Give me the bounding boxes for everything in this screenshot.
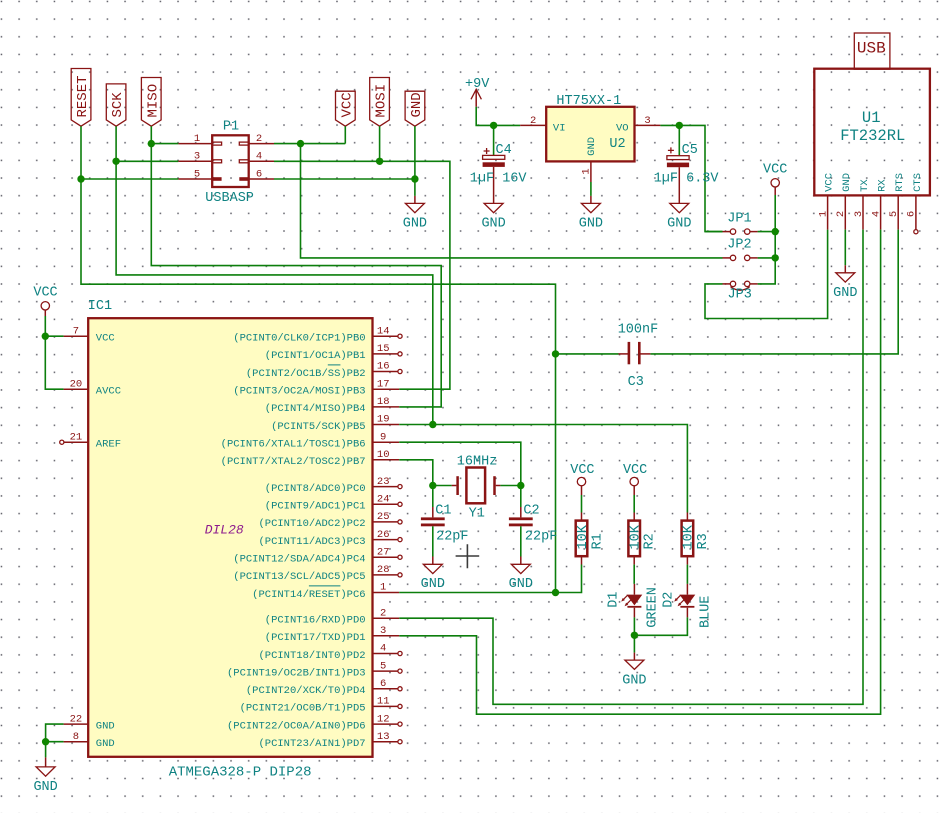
jumper JP1 (723, 212, 758, 235)
capacitor C4 (470, 125, 528, 203)
IC1 pin 25 PC2 (258, 511, 402, 530)
svg-text:(PCINT6/XTAL1/TOSC1)PB6: (PCINT6/XTAL1/TOSC1)PB6 (221, 439, 366, 451)
svg-text:HT75XX-1: HT75XX-1 (556, 94, 621, 109)
wire MISO net: flag down, across, down to PB4 row (151, 126, 441, 407)
power flag GND (under P1 pin6 net) (403, 196, 427, 232)
svg-text:26: 26 (377, 529, 390, 541)
ground symbol for U1 pin2 (833, 265, 857, 301)
svg-text:(PCINT2/OC1B/SS)PB2: (PCINT2/OC1B/SS)PB2 (246, 368, 366, 380)
svg-text:(PCINT13/SCL/ADC5)PC5: (PCINT13/SCL/ADC5)PC5 (233, 571, 365, 583)
power flag +9V (465, 77, 490, 107)
svg-text:TX: TX (859, 179, 871, 192)
svg-text:(PCINT20/XCK/T0)PD4: (PCINT20/XCK/T0)PD4 (246, 685, 366, 697)
wire VCC to IC1 VCC/AVCC pins (45, 316, 63, 389)
wire JP3 left to U1 pin1 (USB power) (705, 230, 828, 319)
svg-text:GND: GND (481, 216, 505, 231)
svg-text:(PCINT21/OC0B/T1)PD5: (PCINT21/OC0B/T1)PD5 (240, 703, 366, 715)
wire D2 cathode to LED ground node (634, 617, 687, 635)
wire U1 pin3 TX to ATmega PD0 (399, 230, 863, 705)
IC1 pin 17 PB3 (233, 378, 399, 397)
resistor R2 10K (628, 495, 657, 565)
wire SCK to P1 pin3 (116, 160, 178, 162)
wire U2 VO to C5 and down right column (660, 125, 722, 231)
resistor R3 10K (682, 513, 711, 565)
pin 6 stub (249, 178, 274, 180)
wire MOSI flag drop (379, 126, 381, 161)
IC1 pin 15 PB1 (265, 343, 402, 362)
IC1 pin 2 PD0 (265, 607, 399, 626)
overline SS on PB2 name (328, 364, 341, 366)
svg-text:IC1: IC1 (88, 299, 112, 314)
wire RESET to P1 pin5 (81, 178, 178, 180)
svg-text:USB: USB (857, 40, 886, 58)
junction JP1/VCC (772, 228, 779, 235)
svg-text:GND: GND (96, 720, 115, 732)
svg-text:C3: C3 (628, 375, 644, 390)
capacitor C2 22pF (509, 486, 557, 557)
junction C5 (676, 122, 683, 129)
svg-text:4: 4 (256, 151, 262, 163)
svg-text:4: 4 (380, 643, 386, 655)
svg-text:JP1: JP1 (727, 212, 751, 227)
svg-text:11: 11 (377, 696, 390, 708)
svg-text:Y1: Y1 (469, 507, 485, 522)
svg-text:(PCINT1/OC1A)PB1: (PCINT1/OC1A)PB1 (265, 350, 366, 362)
IC1 pin 27 PC4 (233, 546, 402, 565)
IC1 pin 23 PC0 (265, 476, 402, 495)
hierarchical label SCK (106, 84, 126, 126)
svg-text:19: 19 (377, 414, 390, 426)
svg-text:JP2: JP2 (727, 238, 751, 253)
svg-text:GND: GND (841, 173, 853, 192)
svg-text:GND: GND (509, 577, 533, 592)
IC1 pin 10 PB7 (221, 449, 400, 468)
svg-text:(PCINT9/ADC1)PC1: (PCINT9/ADC1)PC1 (265, 501, 366, 513)
svg-text:GND: GND (667, 216, 691, 231)
wire JP1 right to VCC column (758, 231, 776, 233)
svg-text:5: 5 (888, 211, 900, 217)
svg-text:6: 6 (380, 678, 386, 690)
svg-text:20: 20 (70, 378, 83, 390)
svg-text:2: 2 (835, 211, 847, 217)
pin 4 RX (880, 196, 882, 230)
wire U1 pin4 RX to ATmega PD1 (399, 230, 880, 715)
IC1 pin 14 PB0 (233, 325, 402, 344)
LED D1 GREEN (607, 584, 661, 628)
svg-text:6: 6 (256, 168, 262, 180)
hierarchical label RESET (71, 69, 91, 127)
connector P1 USBASP (178, 120, 274, 206)
svg-text:U1: U1 (862, 109, 881, 127)
IC1 pin 18 PB4 (265, 396, 399, 415)
capacitor C5 (654, 125, 720, 203)
svg-text:BLUE: BLUE (699, 596, 714, 628)
pin 3 TX (862, 196, 864, 230)
wire VCC flag to P1 pin2 row (344, 126, 346, 143)
svg-text:4: 4 (870, 211, 882, 217)
IC1 pin 28 PC5 (233, 564, 402, 583)
IC1 pin 16 PB2 (246, 361, 402, 380)
svg-text:D2: D2 (662, 592, 677, 608)
svg-text:1: 1 (194, 133, 200, 145)
ground symbol for C1 (421, 557, 445, 592)
junction VCC pin7 (42, 333, 49, 340)
svg-text:(PCINT10/ADC2)PC2: (PCINT10/ADC2)PC2 (258, 518, 365, 530)
svg-text:MISO: MISO (145, 84, 161, 118)
svg-text:(PCINT7/XTAL2/TOSC2)PB7: (PCINT7/XTAL2/TOSC2)PB7 (221, 456, 366, 468)
ground symbol for C5 (667, 203, 691, 231)
svg-text:(PCINT14/RESET)PC6: (PCINT14/RESET)PC6 (252, 589, 365, 601)
svg-text:(PCINT18/INT0)PD2: (PCINT18/INT0)PD2 (258, 650, 365, 662)
wire U1 pin2 to ground (844, 230, 846, 266)
USB port box (854, 33, 890, 69)
svg-text:GND: GND (421, 577, 445, 592)
junction JP2/VCC (772, 254, 779, 261)
svg-text:P1: P1 (223, 120, 239, 135)
svg-text:1: 1 (380, 582, 386, 594)
ground symbol for C4 (481, 203, 505, 231)
svg-text:3: 3 (853, 211, 865, 217)
svg-text:6: 6 (906, 211, 918, 217)
wire MISO to P1 pin1 (151, 143, 178, 145)
pin 5 RTS (897, 196, 899, 230)
svg-text:VCC: VCC (33, 285, 57, 300)
svg-text:VI: VI (553, 123, 566, 135)
IC1 pin 1 PC6 (252, 582, 399, 601)
IC U1 FT232RL (814, 33, 930, 234)
ground symbol for C2 (509, 557, 533, 592)
svg-text:(PCINT5/SCK)PB5: (PCINT5/SCK)PB5 (271, 421, 366, 433)
wire IC1 GND pins to ground (46, 724, 64, 757)
svg-text:GND: GND (96, 738, 115, 750)
ground symbol for LEDs (622, 653, 646, 689)
svg-text:10K: 10K (576, 524, 591, 549)
svg-text:R2: R2 (643, 533, 658, 549)
wire PB7 XTAL2 to crystal left (399, 460, 433, 486)
svg-text:VO: VO (616, 123, 629, 135)
svg-text:(PCINT8/ADC0)PC0: (PCINT8/ADC0)PC0 (265, 483, 366, 495)
svg-text:VCC: VCC (339, 92, 355, 117)
svg-text:(PCINT16/RXD)PD0: (PCINT16/RXD)PD0 (265, 615, 366, 627)
IC1 pin 19 PB5 (271, 414, 399, 433)
LED D2 BLUE (662, 584, 714, 628)
svg-text:RX: RX (877, 179, 889, 192)
svg-text:GND: GND (409, 92, 425, 117)
svg-text:VCC: VCC (763, 163, 787, 178)
svg-text:U2: U2 (609, 137, 625, 152)
junction GND pin8 (42, 738, 49, 745)
hierarchical label MISO (141, 78, 161, 127)
svg-text:15: 15 (377, 343, 390, 355)
power flag VCC (R1) (570, 463, 594, 495)
svg-text:5: 5 (380, 660, 386, 672)
junction P1 pin1/MISO (148, 140, 155, 147)
wire +9V to U2 VI (476, 107, 520, 126)
IC1 pin 3 PD1 (265, 625, 399, 644)
svg-text:1µF 16V: 1µF 16V (470, 171, 528, 186)
junction crystal left (429, 482, 436, 489)
svg-text:28: 28 (377, 564, 390, 576)
svg-text:7: 7 (73, 325, 79, 337)
wire JP2 right to VCC column (758, 257, 776, 259)
pin 8 GND (64, 741, 89, 743)
svg-text:25: 25 (377, 511, 390, 523)
wire P1 pin4 row across and down to PB3 (274, 161, 450, 389)
junction PC6/R1 (552, 589, 559, 596)
wire PC6 row to R1/C3 junction (399, 565, 581, 593)
capacitor C1 22pF (421, 486, 469, 557)
ground symbol bottom-left (33, 757, 57, 794)
junction MOSI flag (376, 158, 383, 165)
pin 20 AVCC (64, 388, 89, 390)
wire R3 to LED D2 (686, 565, 688, 584)
wire PB6 XTAL1 to crystal right (399, 442, 521, 485)
IC1 pin 4 PD2 (258, 643, 402, 662)
wire crystal right lead (500, 485, 520, 487)
svg-text:GND: GND (33, 780, 57, 795)
svg-text:R3: R3 (696, 533, 711, 549)
jumper JP3 (723, 281, 758, 303)
svg-text:21: 21 (70, 431, 83, 443)
pin 2 VI stub (520, 124, 546, 126)
IC1 pin 26 PC3 (258, 529, 402, 548)
svg-text:8: 8 (73, 731, 79, 743)
svg-text:+9V: +9V (465, 77, 490, 92)
svg-text:(PCINT0/CLK0/ICP1)PB0: (PCINT0/CLK0/ICP1)PB0 (233, 333, 365, 345)
wire VCC branch to pin 7 (45, 335, 63, 337)
IC1 pin 6 PD4 (246, 678, 402, 697)
wire SCK net: flag down, across, down to PB5 row (116, 126, 433, 424)
IC1 pin 5 PD3 (227, 660, 402, 679)
wire R2 to LED D1 (633, 565, 635, 584)
svg-text:MOSI: MOSI (374, 84, 390, 118)
svg-text:2: 2 (380, 607, 386, 619)
junction P1 pin2/VCC (297, 140, 304, 147)
svg-text:13: 13 (377, 731, 390, 743)
svg-text:1: 1 (581, 168, 593, 174)
pin notches (212, 142, 221, 145)
svg-text:JP3: JP3 (728, 288, 752, 303)
wire P1 pin2 row (274, 143, 345, 145)
svg-text:1: 1 (817, 211, 829, 217)
svg-text:AREF: AREF (96, 439, 121, 451)
IC1 pin 24 PC1 (265, 494, 402, 513)
svg-text:GND: GND (586, 137, 598, 156)
svg-text:10K: 10K (629, 524, 644, 549)
pin 1 VCC (827, 196, 829, 230)
pin 22 GND (64, 723, 89, 725)
wire crystal left lead (433, 485, 452, 487)
svg-text:C5: C5 (682, 143, 698, 158)
svg-text:3: 3 (380, 625, 386, 637)
svg-text:CTS: CTS (912, 173, 924, 192)
regulator U2 HT75XX-1 (520, 94, 660, 182)
svg-text:GREEN: GREEN (645, 587, 660, 628)
svg-text:(PCINT4/MISO)PB4: (PCINT4/MISO)PB4 (265, 403, 366, 415)
IC1 pin 13 PD7 (258, 731, 402, 750)
pin 7 VCC (64, 335, 89, 337)
svg-text:VCC: VCC (824, 173, 836, 192)
IC1 pin 11 PD5 (240, 696, 403, 715)
svg-text:C1: C1 (435, 504, 451, 519)
svg-text:5: 5 (194, 168, 200, 180)
svg-text:AVCC: AVCC (96, 386, 121, 398)
svg-text:12: 12 (377, 713, 390, 725)
wire P1 pin2 down to JP2 row (301, 144, 723, 258)
wire D1 cathode down (633, 617, 635, 652)
svg-text:VCC: VCC (570, 463, 594, 478)
hierarchical label GND (405, 91, 425, 126)
svg-text:FT232RL: FT232RL (840, 127, 905, 145)
svg-text:GND: GND (833, 286, 857, 301)
resistor R1 10K (576, 495, 606, 565)
svg-text:22: 22 (70, 713, 83, 725)
svg-text:1µF 6.3V: 1µF 6.3V (654, 172, 720, 187)
svg-text:3: 3 (644, 115, 650, 127)
wire VCC column through JP1/JP2 down to JP3 (758, 195, 776, 284)
svg-text:17: 17 (377, 378, 390, 390)
pin 6 CTS unconnected (915, 196, 917, 230)
svg-text:2: 2 (530, 115, 536, 127)
svg-text:3: 3 (194, 151, 200, 163)
ground symbol for U2 (579, 196, 603, 232)
cursor crosshair (456, 544, 480, 568)
svg-text:10: 10 (377, 449, 390, 461)
crystal Y1 16MHz (452, 454, 501, 521)
pin 2 stub (249, 143, 274, 145)
junction C4 (490, 122, 497, 129)
svg-text:DIL28: DIL28 (205, 523, 244, 538)
svg-text:SCK: SCK (110, 92, 126, 118)
pin 1 GND stub (590, 161, 592, 182)
svg-text:VCC: VCC (623, 463, 647, 478)
hierarchical label MOSI (370, 78, 390, 127)
jumper JP2 (723, 238, 758, 261)
wire PB5 row to R3 column (399, 425, 687, 513)
junction C3/RESET column (552, 350, 559, 357)
svg-text:USBASP: USBASP (205, 191, 254, 206)
IC1 pin 12 PD6 (227, 713, 402, 732)
pin 1 stub (178, 143, 212, 145)
svg-text:(PCINT23/AIN1)PD7: (PCINT23/AIN1)PD7 (258, 738, 365, 750)
junction PB5/R3 (429, 421, 436, 428)
svg-text:C4: C4 (496, 143, 512, 158)
wire regulator output to JP1 left (705, 231, 723, 233)
svg-text:(PCINT12/SDA/ADC4)PC4: (PCINT12/SDA/ADC4)PC4 (233, 554, 365, 566)
svg-text:C2: C2 (523, 504, 539, 519)
pin 2 GND (844, 196, 846, 230)
wire U1 pin5 RTS down to C3 row (650, 230, 898, 354)
wire P1 pin6 row (274, 178, 415, 180)
junction crystal right (517, 482, 524, 489)
power flag VCC (ATmega supply) (33, 285, 57, 316)
overline RESET on PC6 name (309, 585, 341, 587)
svg-text:GND: GND (622, 674, 646, 689)
svg-text:22pF: 22pF (436, 529, 468, 544)
junction P1 pin3/SCK (112, 158, 119, 165)
wire U2 GND pin down (590, 182, 592, 196)
svg-text:2: 2 (256, 133, 262, 145)
wire RESET net: flag down, across to C3/PC6 column (81, 126, 556, 592)
IC IC1 ATMEGA328-P (60, 299, 373, 781)
power flag VCC (R2) (623, 463, 647, 495)
svg-text:R1: R1 (590, 533, 605, 549)
svg-text:27: 27 (377, 546, 390, 558)
junction LED ground node (631, 632, 638, 639)
svg-text:ATMEGA328-P DIP28: ATMEGA328-P DIP28 (169, 765, 312, 781)
svg-text:RESET: RESET (75, 75, 91, 117)
svg-text:(PCINT3/OC2A/MOSI)PB3: (PCINT3/OC2A/MOSI)PB3 (233, 386, 365, 398)
svg-text:(PCINT11/ADC3)PC3: (PCINT11/ADC3)PC3 (258, 536, 365, 548)
junction GND flag (411, 175, 418, 182)
svg-text:D1: D1 (607, 592, 622, 608)
svg-text:RTS: RTS (894, 173, 906, 192)
svg-text:(PCINT19/OC2B/INT1)PD3: (PCINT19/OC2B/INT1)PD3 (227, 667, 366, 679)
svg-text:9: 9 (380, 431, 386, 443)
hierarchical label VCC (336, 91, 356, 126)
power flag VCC (jumper column) (763, 163, 787, 196)
wire GND branch pin 8 (46, 741, 64, 743)
svg-text:10K: 10K (682, 524, 697, 549)
svg-text:23: 23 (377, 476, 390, 488)
svg-text:16: 16 (377, 361, 390, 373)
svg-text:(PCINT22/OC0A/AIN0)PD6: (PCINT22/OC0A/AIN0)PD6 (227, 720, 366, 732)
svg-text:GND: GND (579, 216, 603, 231)
pin 21 AREF unconnected (64, 441, 88, 443)
junction P1 pin5/RESET (77, 175, 84, 182)
svg-text:100nF: 100nF (618, 323, 659, 338)
pin 3 stub (178, 160, 212, 162)
svg-text:(PCINT17/TXD)PD1: (PCINT17/TXD)PD1 (265, 632, 366, 644)
IC1 pin 9 PB6 (221, 431, 400, 450)
wire C3 left lead to RESET column (556, 353, 619, 355)
svg-text:14: 14 (377, 325, 390, 337)
pin 4 stub (249, 160, 274, 162)
svg-text:VCC: VCC (96, 333, 115, 345)
wire GND flag drop (414, 126, 416, 196)
svg-text:GND: GND (403, 216, 427, 231)
capacitor C3 100nF (618, 323, 659, 390)
svg-text:22pF: 22pF (525, 529, 557, 544)
pin 5 stub (178, 178, 212, 180)
svg-text:24: 24 (377, 494, 390, 506)
pin 3 VO stub (635, 124, 661, 126)
svg-text:18: 18 (377, 396, 390, 408)
